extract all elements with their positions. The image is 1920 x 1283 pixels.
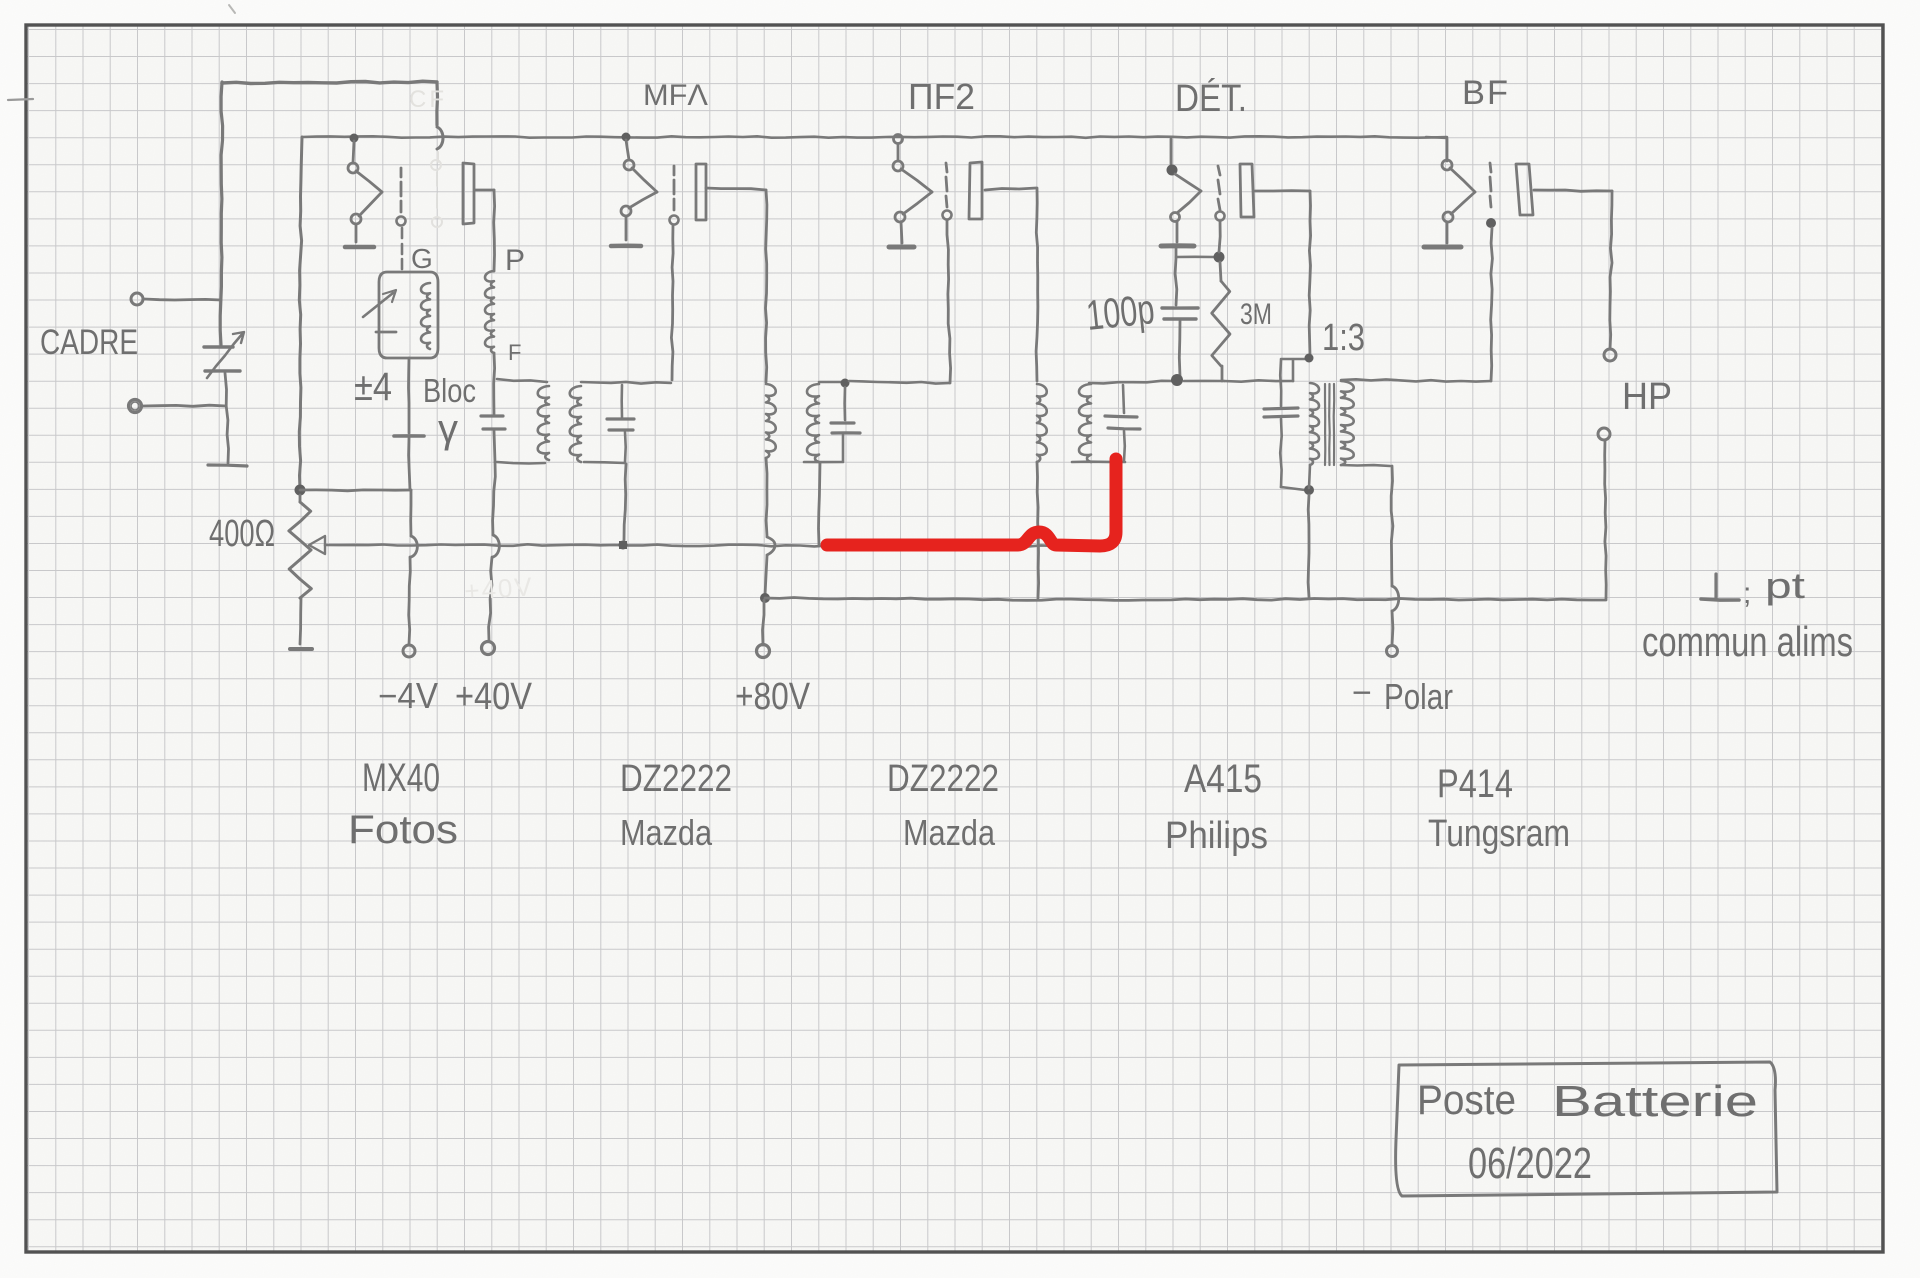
svg-text:+40V: +40V bbox=[463, 571, 534, 606]
svg-text:CF: CF bbox=[409, 86, 447, 113]
svg-text:DZ2222: DZ2222 bbox=[887, 758, 999, 800]
svg-text:G: G bbox=[411, 243, 433, 274]
svg-text:Mazda: Mazda bbox=[903, 812, 996, 853]
svg-text:Tungsram: Tungsram bbox=[1428, 813, 1570, 855]
svg-text:−4V: −4V bbox=[378, 675, 438, 716]
svg-text:±4: ±4 bbox=[354, 365, 392, 409]
svg-text:F: F bbox=[508, 340, 523, 365]
svg-text:06/2022: 06/2022 bbox=[1468, 1139, 1592, 1188]
svg-text:Poste: Poste bbox=[1417, 1076, 1516, 1123]
svg-text:γ: γ bbox=[438, 407, 458, 451]
svg-text:MFΛ: MFΛ bbox=[643, 79, 708, 112]
svg-text:CADRE: CADRE bbox=[40, 323, 138, 362]
svg-text:P414: P414 bbox=[1437, 762, 1513, 806]
svg-text:Polar: Polar bbox=[1384, 676, 1453, 717]
svg-text:ΠF2: ΠF2 bbox=[908, 76, 975, 117]
svg-text:;: ; bbox=[1743, 577, 1753, 610]
svg-text:+80V: +80V bbox=[735, 676, 811, 718]
svg-text:commun alims: commun alims bbox=[1642, 618, 1853, 665]
svg-text:Fotos: Fotos bbox=[348, 808, 458, 852]
svg-text:100p: 100p bbox=[1084, 285, 1157, 339]
svg-text:Batterie: Batterie bbox=[1552, 1077, 1758, 1126]
svg-text:DÉT.: DÉT. bbox=[1175, 77, 1247, 120]
svg-text:Mazda: Mazda bbox=[620, 812, 713, 853]
svg-text:+40V: +40V bbox=[455, 676, 533, 718]
svg-text:MX40: MX40 bbox=[362, 756, 440, 800]
svg-text:−: − bbox=[1352, 674, 1373, 712]
svg-text:DZ2222: DZ2222 bbox=[620, 758, 732, 800]
svg-text:P: P bbox=[505, 244, 527, 277]
svg-text:Philips: Philips bbox=[1165, 815, 1268, 857]
svg-text:HP: HP bbox=[1622, 376, 1672, 418]
svg-text:1:3: 1:3 bbox=[1322, 317, 1365, 359]
svg-text:A415: A415 bbox=[1184, 757, 1262, 801]
svg-text:3M: 3M bbox=[1240, 298, 1272, 331]
svg-text:400Ω: 400Ω bbox=[209, 513, 275, 555]
svg-text:BF: BF bbox=[1462, 74, 1510, 112]
svg-text:pt: pt bbox=[1765, 565, 1805, 606]
svg-text:Bloc: Bloc bbox=[423, 372, 476, 409]
